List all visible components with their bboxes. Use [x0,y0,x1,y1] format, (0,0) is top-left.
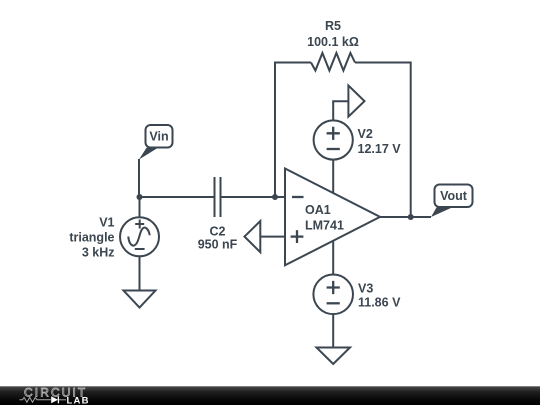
wire input node to C2 left plate [140,196,214,198]
svg-text:100.1 kΩ: 100.1 kΩ [307,35,359,49]
svg-text:Vout: Vout [440,189,468,203]
svg-text:V3: V3 [358,282,373,296]
wire C2 right plate to inverting input [222,196,286,198]
op-amp OA1 body [285,169,380,266]
wire op-amp bottom power pin to V3 [332,241,334,275]
wire V1 bottom to ground [139,257,141,291]
wire non-inverting input to reference arrow [260,236,285,238]
op-amp non-inverting input marker [291,230,304,243]
node Vin (flag) [139,125,173,160]
voltage source V2 [314,120,353,159]
node Vout (flag) [431,185,473,218]
wire V3 bottom to ground [332,314,334,347]
resistor R5 [311,53,355,71]
svg-text:V1: V1 [99,216,114,230]
voltage source V1 [120,217,159,256]
junction inverting input / feedback [272,194,278,200]
svg-text:11.86 V: 11.86 V [358,296,401,310]
svg-text:V2: V2 [358,127,373,141]
supply arrow above V2 [348,86,364,117]
junction output node [408,214,414,220]
svg-text:LM741: LM741 [305,219,344,233]
svg-text:950 nF: 950 nF [198,238,238,252]
voltage source V3 [313,275,353,315]
logo diode [51,396,66,403]
svg-text:C2: C2 [210,225,226,239]
op-amp inverting input marker [292,196,304,198]
junction input node [137,194,143,200]
wire op-amp top power pin to V2 [332,160,334,194]
svg-text:R5: R5 [325,19,341,33]
capacitor C2 [215,177,221,217]
wire op-amp output [380,216,431,218]
ground below V3 [317,348,351,365]
logo resistor zigzag wire [20,397,51,402]
svg-text:OA1: OA1 [305,203,331,217]
svg-text:3 kHz: 3 kHz [82,246,115,260]
ground below V1 [124,291,156,308]
reference arrow at non-inverting input [245,221,261,252]
svg-text:triangle: triangle [69,231,114,245]
svg-text:12.17 V: 12.17 V [358,142,402,156]
wire feedback left vertical + top left to R5 [275,63,311,198]
wire Vin stem to input node [138,159,140,197]
wire R5 to right corner and feedback right vertical [355,63,411,218]
wire input node to V1 top [139,197,141,218]
svg-text:Vin: Vin [149,130,168,144]
svg-text:LAB: LAB [67,396,90,405]
wire V2 top to supply arrow [333,101,348,120]
